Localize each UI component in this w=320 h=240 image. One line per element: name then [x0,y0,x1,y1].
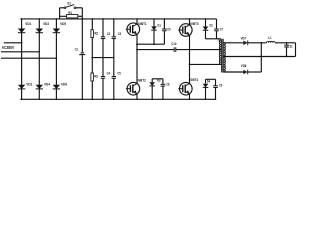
svg-text:C3: C3 [118,31,122,36]
svg-text:R2: R2 [95,30,99,35]
svg-text:VD3: VD3 [43,21,50,26]
svg-text:VD2: VD2 [26,81,33,86]
svg-text:R3: R3 [94,73,98,78]
svg-text:IGBT4: IGBT4 [189,78,199,82]
svg-text:D3: D3 [157,78,160,82]
svg-text:R1: R1 [68,10,72,15]
svg-text:D2: D2 [210,23,213,27]
svg-text:C11: C11 [287,44,292,48]
svg-text:S1: S1 [67,1,71,6]
svg-text:C5: C5 [117,71,121,76]
svg-text:C6: C6 [167,27,170,31]
svg-text:C1: C1 [75,47,79,52]
svg-text:IGBT1: IGBT1 [138,22,147,26]
svg-text:IGBT3: IGBT3 [190,22,199,26]
svg-text:IGBT2: IGBT2 [137,78,146,82]
svg-text:VD1: VD1 [25,21,32,26]
svg-text:C4: C4 [107,71,111,76]
svg-text:C9: C9 [219,84,222,88]
svg-text:C10: C10 [171,42,176,46]
svg-text:VD8: VD8 [241,64,247,68]
svg-text:VD4: VD4 [44,81,51,86]
svg-text:VD7: VD7 [241,36,247,40]
svg-text:C8: C8 [166,83,169,87]
svg-text:C7: C7 [220,28,223,32]
svg-text:VD6: VD6 [61,81,68,86]
svg-text:T1: T1 [217,39,220,43]
svg-text:C2: C2 [107,31,111,36]
svg-text:VD5: VD5 [60,21,67,26]
svg-text:L1: L1 [268,36,271,40]
svg-text:AC380V: AC380V [2,45,15,50]
svg-text:D1: D1 [158,23,161,27]
